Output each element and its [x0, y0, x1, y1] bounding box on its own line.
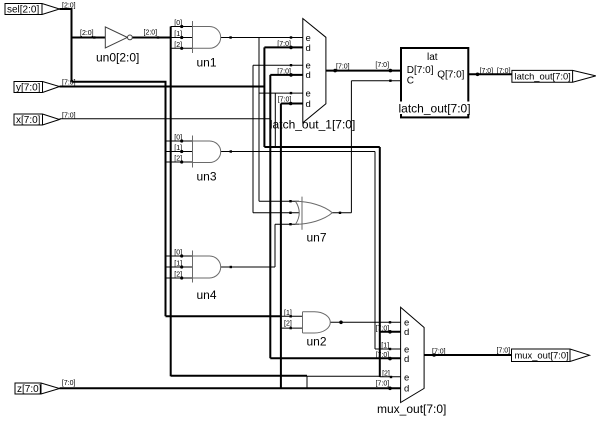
- svg-text:[2:0]: [2:0]: [62, 3, 76, 10]
- svg-text:[7:0]: [7:0]: [376, 325, 390, 332]
- svg-text:[7:0]: [7:0]: [336, 64, 350, 71]
- svg-text:un0[2:0]: un0[2:0]: [96, 51, 139, 65]
- svg-text:[7:0]: [7:0]: [278, 97, 292, 104]
- svg-text:C: C: [407, 75, 414, 86]
- svg-text:[0]: [0]: [174, 135, 182, 142]
- svg-text:lat: lat: [427, 52, 438, 63]
- svg-text:[7:0]: [7:0]: [62, 380, 76, 387]
- svg-text:mux_out[7:0]: mux_out[7:0]: [377, 402, 446, 416]
- svg-text:d: d: [306, 43, 311, 54]
- svg-text:y[7:0]: y[7:0]: [16, 83, 41, 94]
- svg-text:[7:0]: [7:0]: [62, 113, 76, 120]
- svg-text:latch_out_1[7:0]: latch_out_1[7:0]: [270, 118, 355, 132]
- svg-text:un7: un7: [307, 231, 327, 245]
- svg-text:[2]: [2]: [382, 371, 390, 378]
- svg-text:[7:0]: [7:0]: [480, 68, 494, 75]
- svg-text:[1]: [1]: [381, 343, 389, 350]
- svg-text:x[7:0]: x[7:0]: [16, 115, 41, 126]
- svg-text:[7:0]: [7:0]: [432, 348, 446, 355]
- svg-text:d: d: [404, 327, 409, 338]
- svg-text:[2]: [2]: [174, 272, 182, 279]
- svg-text:[2]: [2]: [174, 42, 182, 49]
- svg-text:[7:0]: [7:0]: [277, 41, 291, 48]
- svg-text:[7:0]: [7:0]: [277, 69, 291, 76]
- svg-text:Q[7:0]: Q[7:0]: [437, 70, 464, 81]
- svg-text:[7:0]: [7:0]: [376, 352, 390, 359]
- svg-text:[2]: [2]: [174, 156, 182, 163]
- svg-text:d: d: [306, 99, 311, 110]
- svg-text:sel[2:0]: sel[2:0]: [7, 5, 39, 16]
- svg-text:un1: un1: [197, 56, 217, 70]
- svg-text:d: d: [404, 354, 409, 365]
- svg-text:[7:0]: [7:0]: [375, 62, 389, 69]
- svg-text:[1]: [1]: [174, 31, 182, 38]
- svg-text:mux_out[7:0]: mux_out[7:0]: [515, 350, 569, 361]
- svg-text:[0]: [0]: [174, 20, 182, 27]
- svg-text:[2:0]: [2:0]: [144, 30, 158, 37]
- svg-text:[0]: [0]: [174, 250, 182, 257]
- svg-text:[2]: [2]: [284, 321, 292, 328]
- svg-text:latch_out[7:0]: latch_out[7:0]: [399, 102, 471, 116]
- svg-text:e: e: [404, 372, 409, 383]
- svg-text:latch_out[7:0]: latch_out[7:0]: [515, 71, 571, 82]
- svg-text:[7:0]: [7:0]: [62, 80, 76, 87]
- svg-text:d: d: [306, 70, 311, 81]
- svg-text:[2:0]: [2:0]: [80, 30, 94, 37]
- svg-text:un3: un3: [197, 170, 217, 184]
- svg-text:un2: un2: [307, 335, 327, 349]
- svg-text:[7:0]: [7:0]: [376, 381, 390, 388]
- svg-text:e: e: [306, 88, 311, 99]
- svg-text:[7:0]: [7:0]: [497, 68, 511, 75]
- svg-text:d: d: [404, 383, 409, 394]
- svg-text:[1]: [1]: [174, 261, 182, 268]
- svg-text:un4: un4: [197, 288, 217, 302]
- svg-text:z[7:0]: z[7:0]: [17, 384, 42, 395]
- svg-text:[1]: [1]: [174, 145, 182, 152]
- svg-text:[1]: [1]: [284, 310, 292, 317]
- svg-text:[7:0]: [7:0]: [497, 348, 511, 355]
